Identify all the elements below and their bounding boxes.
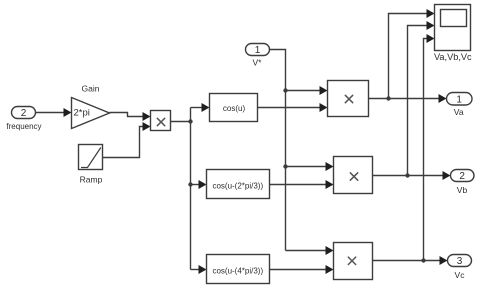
svg-text:V*: V* — [253, 58, 263, 68]
svg-text:Vb: Vb — [457, 185, 468, 195]
svg-text:Va: Va — [454, 107, 464, 117]
svg-text:Va,Vb,Vc: Va,Vb,Vc — [434, 52, 472, 62]
svg-text:2: 2 — [459, 171, 465, 182]
svg-text:Ramp: Ramp — [80, 175, 103, 185]
svg-text:Vc: Vc — [455, 270, 466, 280]
svg-text:1: 1 — [456, 94, 462, 105]
svg-text:3: 3 — [457, 256, 463, 267]
svg-text:2: 2 — [21, 108, 27, 119]
svg-text:frequency: frequency — [6, 122, 41, 131]
svg-text:2*pi: 2*pi — [74, 108, 90, 119]
svg-text:cos(u-(2*pi/3)): cos(u-(2*pi/3)) — [212, 181, 263, 190]
svg-text:1: 1 — [255, 45, 261, 56]
svg-text:Gain: Gain — [82, 84, 100, 94]
svg-text:cos(u-(4*pi/3)): cos(u-(4*pi/3)) — [212, 266, 263, 275]
svg-text:cos(u): cos(u) — [223, 104, 246, 113]
